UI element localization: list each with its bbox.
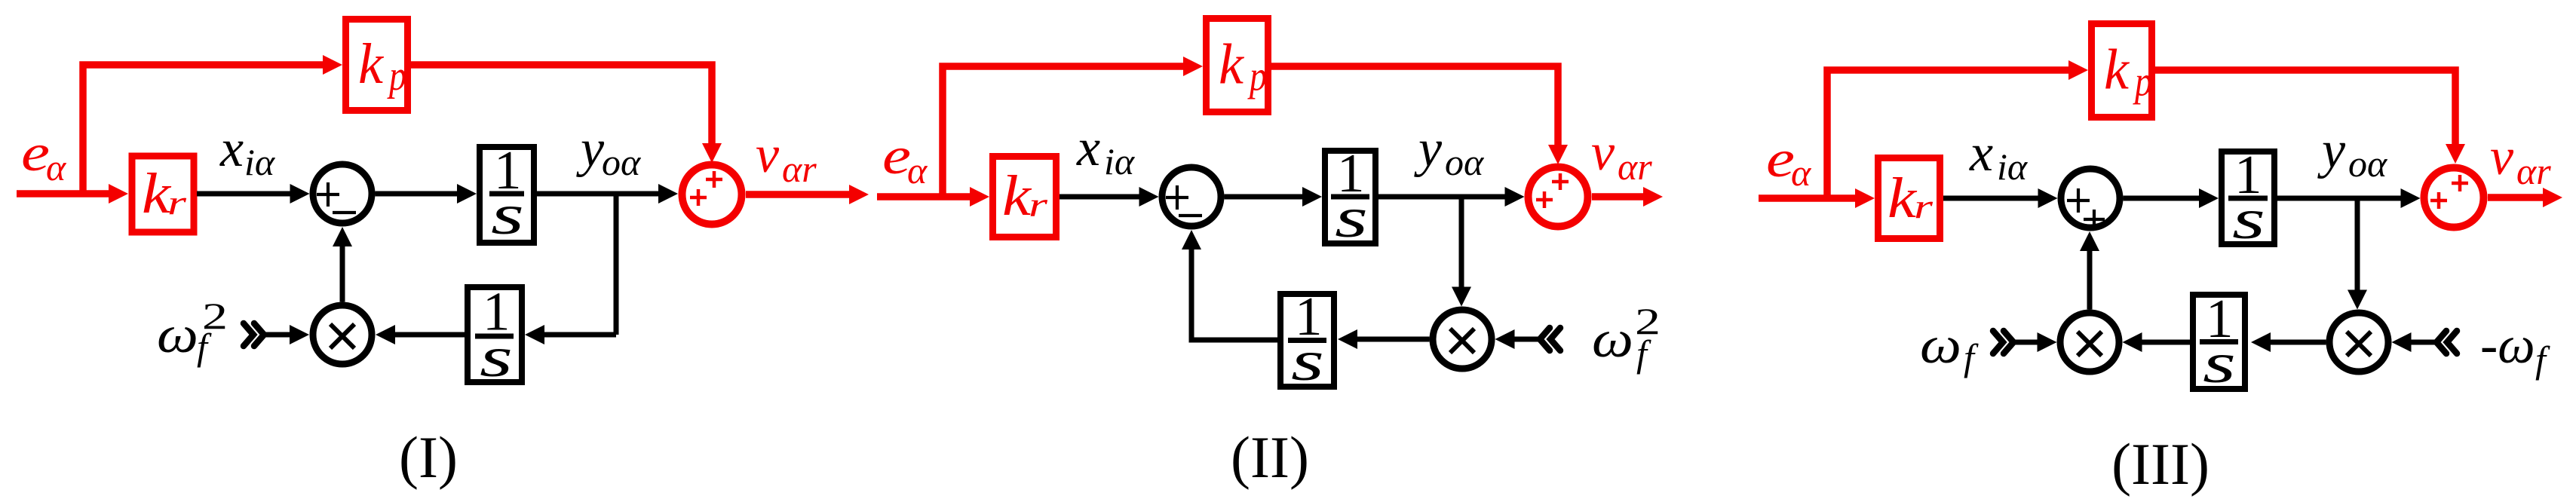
wire kp to red summer (III) [2155, 70, 2455, 154]
wire multiplier up to summer minus input (I) [340, 237, 345, 302]
red summer S2 (II) [1529, 167, 1588, 227]
wire chevron to multiplier (I) [265, 332, 299, 338]
wire kp to red summer (I) [411, 65, 712, 153]
wire input e_alpha to kr (II) [877, 193, 980, 200]
block kr (III) [1878, 158, 1940, 239]
svg-text:-ω: -ω [2480, 317, 2535, 375]
svg-text:v: v [1591, 124, 1615, 182]
block integrator 1/s upper (III) [2222, 144, 2274, 251]
wire branch down to right multiplier (III) [2355, 196, 2360, 300]
wire input e_alpha to kr (III) [1759, 194, 1865, 202]
wire feedforward up and to kp (III) [1827, 70, 2078, 198]
wire integrator to red summer (I) [537, 191, 668, 197]
wire branch to lower integrator (I) [535, 332, 616, 338]
node omega_f^2 label (II) [1592, 300, 1661, 375]
summer S1 (III) [2061, 169, 2120, 228]
svg-text:(I): (I) [399, 424, 458, 490]
svg-text:k: k [358, 32, 384, 96]
multiplier M1 left (III) [2060, 313, 2119, 372]
svg-text:y: y [1414, 120, 1443, 178]
svg-text:k: k [1888, 167, 1917, 230]
red summer S2 (III) [2424, 168, 2484, 228]
svg-text:s: s [1335, 186, 1368, 249]
svg-text:s: s [1291, 329, 1324, 393]
svg-text:y: y [2317, 121, 2346, 179]
svg-text:α: α [1791, 152, 1812, 194]
svg-text:oα: oα [1445, 141, 1485, 183]
svg-text:αr: αr [1618, 145, 1652, 188]
svg-text:p: p [1247, 54, 1267, 100]
wire summer to integrator 1/s (I) [376, 191, 468, 197]
wire integrator to red summer (III) [2274, 196, 2411, 201]
svg-text:iα: iα [1997, 145, 2029, 188]
block integrator 1/s upper (I) [480, 139, 534, 246]
red summer S2 (I) [682, 165, 742, 225]
wire input e_alpha to kr (I) [17, 190, 118, 197]
svg-text:(III): (III) [2111, 431, 2210, 497]
svg-text:x: x [1969, 124, 1993, 182]
svg-text:ω: ω [157, 306, 198, 364]
wire kr to summer (III) [1943, 196, 2048, 201]
svg-text:r: r [1029, 185, 1049, 224]
wire branch down from y_oalpha node (I) [614, 191, 619, 335]
multiplier M2 right (III) [2329, 313, 2388, 372]
svg-text:s: s [491, 183, 524, 246]
svg-text:v: v [2490, 128, 2514, 186]
input port chevron omega_f (III) [1993, 331, 2013, 354]
node x_ialpha label (I) [219, 120, 276, 183]
svg-text:s: s [2203, 332, 2236, 395]
svg-text:ω: ω [1920, 317, 1961, 375]
node y_oalpha label (III) [2317, 121, 2388, 185]
node v_alphar label (III) [2490, 128, 2551, 192]
wire kp to red summer (II) [1271, 66, 1558, 155]
wire feedforward up and to kp (II) [943, 66, 1193, 197]
input port chevron omega_f^2 (I) [244, 323, 264, 346]
wire summer to integrator 1/s (III) [2124, 196, 2210, 201]
block integrator 1/s upper (II) [1325, 142, 1375, 249]
svg-text:s: s [2232, 188, 2265, 251]
node omega_f^2 label (I) [157, 295, 228, 368]
node omega_f label (III) [1920, 317, 1979, 378]
node -omega_f label (III) [2480, 317, 2550, 381]
input port chevron omega_f^2 (II) [1540, 328, 1560, 350]
node e_alpha label (II) [882, 127, 928, 191]
wire right multiplier to lower integrator (III) [2261, 340, 2326, 345]
svg-text:oα: oα [2348, 142, 2388, 185]
svg-text:2: 2 [1635, 300, 1661, 342]
svg-text:v: v [756, 126, 780, 184]
node v_alphar label (II) [1591, 124, 1652, 188]
summer S1 (II) [1162, 167, 1221, 226]
block kp (II) [1207, 19, 1268, 112]
svg-text:r: r [167, 183, 188, 222]
multiplier M1 (I) [313, 305, 372, 364]
svg-text:2: 2 [202, 295, 228, 337]
wire kr to summer (I) [197, 191, 300, 197]
svg-text:ω: ω [1592, 311, 1633, 369]
wire chevron to left multiplier (III) [2013, 340, 2047, 345]
block kr (II) [993, 157, 1056, 237]
wire chevron to right multiplier (III) [2402, 340, 2440, 345]
wire left multiplier up to summer plus input (III) [2087, 241, 2093, 310]
block kp (I) [346, 20, 408, 111]
svg-text:p: p [387, 53, 406, 99]
wire multiplier to lower integrator (II) [1348, 337, 1430, 342]
block kp (III) [2092, 24, 2153, 118]
block integrator 1/s lower (I) [468, 281, 522, 390]
svg-text:x: x [219, 120, 244, 178]
svg-text:oα: oα [602, 141, 642, 183]
node x_ialpha label (II) [1076, 119, 1136, 182]
svg-text:p: p [2133, 59, 2152, 106]
svg-text:k: k [1002, 164, 1032, 228]
block kr (I) [132, 156, 194, 232]
svg-text:α: α [907, 149, 928, 191]
wire output v_alphar (III) [2488, 194, 2553, 201]
block integrator 1/s lower (II) [1280, 286, 1334, 393]
wire lower integrator up to summer minus input (II) [1191, 240, 1277, 340]
wire branch down to multiplier (II) [1459, 194, 1464, 297]
svg-text:α: α [46, 146, 67, 188]
node e_alpha label (III) [1766, 130, 1812, 194]
node e_alpha label (I) [21, 124, 67, 188]
wire kr to summer (II) [1060, 194, 1149, 200]
svg-text:s: s [480, 326, 513, 389]
wire summer to integrator 1/s (II) [1225, 194, 1313, 200]
svg-text:(II): (II) [1231, 424, 1309, 490]
wire integrator to red summer (II) [1378, 194, 1515, 200]
svg-text:y: y [576, 120, 605, 178]
node y_oalpha label (I) [576, 120, 642, 183]
wire feedforward up and to kp (I) [83, 65, 333, 194]
svg-text:iα: iα [1104, 140, 1136, 182]
node y_oalpha label (II) [1414, 120, 1485, 183]
node x_ialpha label (III) [1969, 124, 2029, 188]
svg-text:r: r [1914, 187, 1934, 225]
wire lower integrator to left multiplier (III) [2133, 340, 2191, 345]
svg-text:iα: iα [244, 141, 276, 183]
wire output v_alphar (II) [1592, 193, 1653, 200]
wire chevron to multiplier (II) [1505, 337, 1542, 342]
svg-text:k: k [2104, 38, 2130, 102]
svg-text:x: x [1076, 119, 1100, 177]
node v_alphar label (I) [756, 126, 817, 190]
block integrator 1/s lower (III) [2193, 288, 2245, 395]
multiplier M1 (II) [1433, 310, 1492, 369]
svg-text:αr: αr [782, 148, 817, 190]
svg-text:k: k [1219, 33, 1244, 96]
input port chevron -omega_f (III) [2436, 331, 2457, 354]
wire output v_alphar (I) [746, 191, 859, 198]
svg-text:αr: αr [2516, 150, 2551, 192]
wire lower integrator to multiplier (I) [385, 332, 465, 338]
summer S1 (I) [313, 164, 372, 223]
